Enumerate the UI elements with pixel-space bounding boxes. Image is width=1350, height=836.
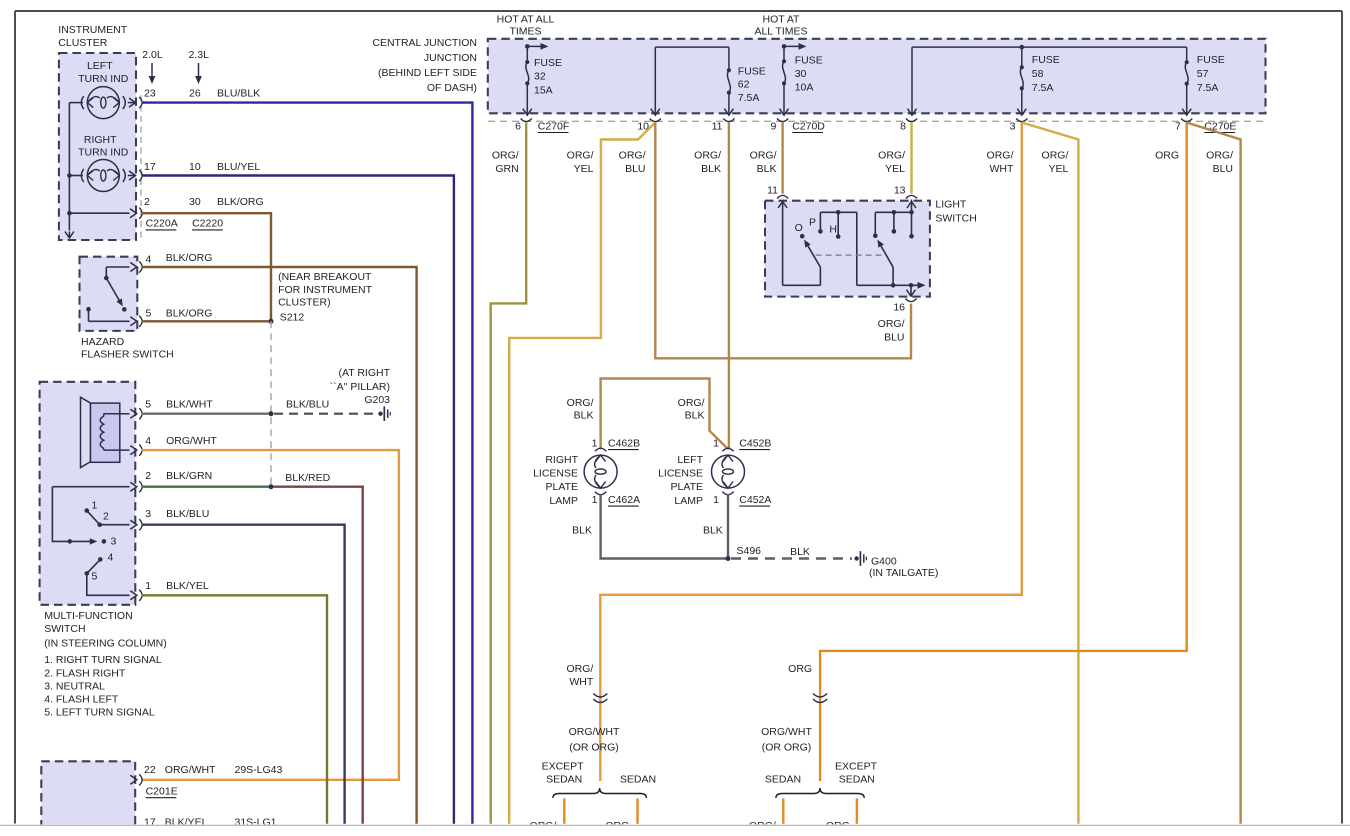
svg-text:ORG/: ORG/ bbox=[878, 318, 905, 330]
svg-text:TIMES: TIMES bbox=[509, 26, 541, 38]
light switch internal: pin11 riser and first pole bbox=[782, 201, 784, 286]
svg-text:BLK: BLK bbox=[701, 163, 721, 175]
light switch box bbox=[765, 201, 930, 297]
wire ORG/WHT from pin 4 down to connector C201E pin 22 bbox=[142, 450, 399, 780]
svg-text:BLU: BLU bbox=[625, 163, 645, 175]
svg-text:ORG/: ORG/ bbox=[1206, 150, 1233, 162]
connector pin 3 bbox=[1016, 119, 1027, 122]
svg-text:C452A: C452A bbox=[739, 494, 771, 506]
svg-text:C220A: C220A bbox=[146, 218, 178, 230]
svg-text:CLUSTER: CLUSTER bbox=[58, 37, 107, 49]
svg-text:FOR INSTRUMENT: FOR INSTRUMENT bbox=[278, 284, 372, 296]
svg-text:BLK: BLK bbox=[572, 524, 592, 536]
svg-text:BLK: BLK bbox=[790, 546, 810, 558]
svg-text:LICENSE: LICENSE bbox=[533, 467, 578, 479]
svg-text:``A" PILLAR): ``A" PILLAR) bbox=[330, 381, 390, 393]
svg-text:C270F: C270F bbox=[538, 120, 570, 132]
connector face line C270 bbox=[488, 120, 1266, 122]
wire ORG/WHT from pin 3 bbox=[600, 123, 1022, 782]
cluster pin 23 exit bbox=[128, 102, 135, 104]
wire BLK/BLU dashed to ground G203 bbox=[274, 413, 376, 415]
svg-text:1: 1 bbox=[713, 494, 719, 506]
svg-text:ORG/: ORG/ bbox=[619, 150, 646, 162]
svg-text:RIGHT: RIGHT bbox=[84, 134, 117, 146]
svg-text:29S-LG43: 29S-LG43 bbox=[235, 764, 283, 776]
svg-text:57: 57 bbox=[1197, 68, 1209, 80]
svg-text:LEFT: LEFT bbox=[677, 454, 703, 466]
svg-text:17: 17 bbox=[144, 161, 156, 173]
svg-text:7.5A: 7.5A bbox=[1032, 82, 1054, 94]
light switch arm 2 bbox=[892, 267, 894, 285]
svg-text:(OR ORG): (OR ORG) bbox=[569, 741, 619, 753]
fuse 62 7.5A with feed jumper to pin 10 bbox=[655, 46, 729, 48]
svg-text:ORG/: ORG/ bbox=[1042, 150, 1069, 162]
svg-text:S496: S496 bbox=[737, 545, 762, 557]
svg-text:5: 5 bbox=[146, 308, 152, 320]
multi-function contacts 1-2 bbox=[85, 508, 90, 513]
svg-text:P: P bbox=[809, 217, 816, 229]
svg-text:SWITCH: SWITCH bbox=[44, 623, 85, 635]
svg-text:2.3L: 2.3L bbox=[188, 49, 209, 61]
svg-text:C452B: C452B bbox=[739, 437, 771, 449]
svg-text:C201E: C201E bbox=[146, 786, 178, 798]
flasher sounder symbol bbox=[81, 397, 91, 468]
dashed splice riser below S212 bbox=[270, 321, 272, 487]
svg-text:BLU: BLU bbox=[884, 332, 904, 344]
svg-text:13: 13 bbox=[894, 184, 906, 196]
svg-text:2: 2 bbox=[103, 511, 109, 523]
svg-text:(IN TAILGATE): (IN TAILGATE) bbox=[869, 567, 938, 579]
svg-text:15A: 15A bbox=[534, 84, 553, 96]
wire BLK/RED bbox=[274, 487, 363, 824]
inline connector on ORG wire bbox=[813, 694, 827, 698]
svg-text:3: 3 bbox=[1010, 120, 1016, 132]
connector pin 8 bbox=[906, 119, 917, 122]
svg-text:5. LEFT TURN SIGNAL: 5. LEFT TURN SIGNAL bbox=[44, 706, 155, 718]
svg-text:HOT AT: HOT AT bbox=[763, 14, 801, 26]
svg-text:INSTRUMENT: INSTRUMENT bbox=[58, 24, 127, 36]
cluster pin 2 exit bbox=[69, 212, 129, 214]
svg-text:FUSE: FUSE bbox=[738, 65, 766, 77]
svg-text:YEL: YEL bbox=[885, 163, 905, 175]
wire BLK/WHT from pin 5 bbox=[142, 413, 269, 415]
wire BLK/BLU from pin 3 bbox=[142, 525, 345, 824]
svg-text:CENTRAL JUNCTION: CENTRAL JUNCTION bbox=[372, 37, 477, 49]
svg-text:ORG/: ORG/ bbox=[567, 397, 594, 409]
svg-text:ORG/WHT: ORG/WHT bbox=[761, 726, 812, 738]
svg-text:BLK/ORG: BLK/ORG bbox=[166, 308, 213, 320]
multi-function switch box bbox=[40, 382, 136, 605]
svg-text:2: 2 bbox=[144, 196, 150, 208]
svg-text:(IN STEERING COLUMN): (IN STEERING COLUMN) bbox=[44, 638, 167, 650]
svg-text:FUSE: FUSE bbox=[534, 57, 562, 69]
svg-text:3: 3 bbox=[145, 508, 151, 520]
svg-text:BLK: BLK bbox=[703, 524, 723, 536]
svg-text:WHT: WHT bbox=[569, 676, 593, 688]
svg-text:YEL: YEL bbox=[574, 163, 594, 175]
connector pin 11 bbox=[723, 119, 734, 122]
svg-text:FUSE: FUSE bbox=[795, 55, 823, 67]
wire stub ORG (sedan left) bbox=[636, 798, 638, 823]
wire BLK from right license lamp bbox=[601, 494, 727, 558]
svg-text:30: 30 bbox=[795, 68, 807, 80]
svg-text:TURN IND: TURN IND bbox=[78, 73, 129, 85]
light switch right contacts bbox=[875, 211, 911, 213]
svg-text:G203: G203 bbox=[364, 394, 390, 406]
svg-text:SEDAN: SEDAN bbox=[546, 774, 582, 786]
svg-text:ORG/: ORG/ bbox=[878, 150, 905, 162]
wire BLK/GRN from pin 2 bbox=[142, 486, 269, 488]
svg-text:23: 23 bbox=[144, 88, 156, 100]
light switch pin 13 bbox=[906, 195, 917, 198]
svg-text:4: 4 bbox=[146, 254, 152, 266]
light switch second pole bottom rail bbox=[857, 284, 920, 286]
svg-text:6: 6 bbox=[515, 120, 521, 132]
light switch pin 11 bbox=[777, 195, 788, 198]
svg-text:CLUSTER): CLUSTER) bbox=[278, 297, 331, 309]
splice junction BLK/WHT to BLK/BLU bbox=[269, 411, 274, 416]
fuse 58 7.5A bbox=[1020, 45, 1025, 50]
svg-text:C270D: C270D bbox=[792, 120, 825, 132]
splice S212 bbox=[269, 319, 274, 324]
wire BLU/YEL bbox=[142, 176, 454, 824]
multi-function contacts 4-5 bbox=[98, 557, 103, 562]
splice junction BLK/GRN to BLK/RED bbox=[269, 484, 274, 489]
multi-function pin 5 exit bbox=[130, 409, 137, 418]
svg-text:ORG/WHT: ORG/WHT bbox=[569, 726, 620, 738]
C201E pin 22 exit bbox=[130, 775, 137, 784]
svg-text:BLK/WHT: BLK/WHT bbox=[166, 398, 213, 410]
svg-text:FLASHER SWITCH: FLASHER SWITCH bbox=[81, 349, 174, 361]
svg-text:BLK: BLK bbox=[685, 409, 705, 421]
fuse 32 15A bbox=[525, 44, 530, 49]
svg-text:PLATE: PLATE bbox=[546, 481, 578, 493]
wire BLK from left license lamp to splice S496 bbox=[727, 494, 729, 558]
svg-text:BLK/ORG: BLK/ORG bbox=[166, 252, 213, 264]
svg-text:O: O bbox=[795, 222, 803, 234]
svg-text:BLK/ORG: BLK/ORG bbox=[217, 196, 264, 208]
svg-text:LAMP: LAMP bbox=[674, 495, 703, 507]
svg-text:BLK/BLU: BLK/BLU bbox=[166, 508, 209, 520]
svg-text:BLU/YEL: BLU/YEL bbox=[217, 161, 260, 173]
svg-text:FUSE: FUSE bbox=[1032, 54, 1060, 66]
svg-text:3: 3 bbox=[111, 535, 117, 547]
wire BLK/YEL from pin 1 bbox=[142, 595, 328, 824]
svg-text:(BEHIND LEFT SIDE: (BEHIND LEFT SIDE bbox=[378, 67, 477, 79]
wire stub ORG (except sedan right) bbox=[856, 798, 858, 823]
svg-text:SEDAN: SEDAN bbox=[620, 774, 656, 786]
svg-text:PLATE: PLATE bbox=[671, 481, 703, 493]
svg-text:C2220: C2220 bbox=[192, 218, 223, 230]
svg-text:10: 10 bbox=[189, 161, 201, 173]
wire BLK/ORG from hazard pin 5 to splice S212 bbox=[142, 320, 272, 322]
svg-text:BLK/BLU: BLK/BLU bbox=[286, 399, 329, 411]
svg-text:ORG/: ORG/ bbox=[750, 150, 777, 162]
svg-text:4. FLASH LEFT: 4. FLASH LEFT bbox=[44, 694, 119, 706]
svg-text:G400: G400 bbox=[871, 556, 897, 568]
svg-text:JUNCTION: JUNCTION bbox=[424, 52, 477, 64]
svg-text:MULTI-FUNCTION: MULTI-FUNCTION bbox=[44, 610, 132, 622]
svg-text:1: 1 bbox=[145, 580, 151, 592]
hazard switch arm bbox=[105, 267, 107, 278]
svg-text:32: 32 bbox=[534, 71, 546, 83]
svg-text:10A: 10A bbox=[795, 81, 814, 93]
svg-text:RIGHT: RIGHT bbox=[545, 454, 578, 466]
svg-text:2. FLASH RIGHT: 2. FLASH RIGHT bbox=[44, 668, 126, 680]
wire ORG/YEL from pin 10 bbox=[509, 123, 655, 824]
svg-text:(OR ORG): (OR ORG) bbox=[762, 741, 812, 753]
svg-text:BLK/YEL: BLK/YEL bbox=[166, 580, 209, 592]
connector face line (cluster) bbox=[140, 95, 142, 240]
svg-text:2.0L: 2.0L bbox=[142, 49, 163, 61]
fuse 57 7.5A bbox=[1186, 47, 1188, 62]
page bottom cut line bbox=[0, 824, 1350, 836]
svg-text:LIGHT: LIGHT bbox=[935, 199, 967, 211]
svg-text:9: 9 bbox=[770, 120, 776, 132]
svg-text:TURN IND: TURN IND bbox=[78, 147, 129, 159]
light switch coupling dashed link bbox=[816, 254, 883, 256]
svg-text:LEFT: LEFT bbox=[87, 60, 113, 72]
wire ORG/BLU from pin 7 (branch) bbox=[1187, 123, 1241, 824]
svg-text:62: 62 bbox=[738, 78, 750, 90]
svg-text:7.5A: 7.5A bbox=[738, 92, 760, 104]
instrument cluster box bbox=[59, 53, 136, 240]
svg-text:26: 26 bbox=[189, 88, 201, 100]
light switch pin 16 bbox=[905, 299, 916, 302]
svg-text:FUSE: FUSE bbox=[1197, 54, 1225, 66]
svg-text:4: 4 bbox=[108, 552, 114, 564]
svg-text:ORG/: ORG/ bbox=[678, 397, 705, 409]
svg-text:1: 1 bbox=[592, 437, 598, 449]
svg-text:LAMP: LAMP bbox=[549, 495, 578, 507]
svg-text:16: 16 bbox=[893, 302, 905, 314]
connector C201E box bbox=[41, 761, 135, 836]
svg-text:11: 11 bbox=[712, 120, 723, 132]
svg-text:30: 30 bbox=[189, 196, 201, 208]
hazard pin 4 exit bbox=[106, 266, 129, 268]
svg-text:HOT AT ALL: HOT AT ALL bbox=[497, 14, 555, 26]
svg-text:7.5A: 7.5A bbox=[1197, 82, 1219, 94]
svg-text:BLK/RED: BLK/RED bbox=[285, 472, 330, 484]
svg-text:GRN: GRN bbox=[495, 163, 518, 175]
svg-text:SEDAN: SEDAN bbox=[765, 774, 801, 786]
connector C270F pin 6 bbox=[521, 119, 532, 122]
connector C270D pin 9 bbox=[777, 119, 788, 122]
svg-text:ORG/WHT: ORG/WHT bbox=[165, 764, 216, 776]
wire ORG/BLK from pin 11 to left license plate lamp C452B bbox=[728, 123, 730, 450]
svg-text:BLK: BLK bbox=[574, 409, 594, 421]
svg-text:ORG/WHT: ORG/WHT bbox=[166, 435, 217, 447]
wire BLK/ORG from pin 2 to splice S212 bbox=[142, 213, 272, 321]
wire BLU/BLK bbox=[142, 103, 473, 824]
svg-text:4: 4 bbox=[145, 435, 151, 447]
svg-text:EXCEPT: EXCEPT bbox=[835, 760, 878, 772]
svg-text:EXCEPT: EXCEPT bbox=[542, 760, 585, 772]
svg-text:C462A: C462A bbox=[608, 494, 640, 506]
svg-text:WHT: WHT bbox=[989, 163, 1013, 175]
wire ORG from pin 7 bbox=[820, 123, 1187, 782]
svg-text:ORG/: ORG/ bbox=[987, 150, 1014, 162]
svg-text:SWITCH: SWITCH bbox=[935, 213, 976, 225]
svg-text:LICENSE: LICENSE bbox=[658, 467, 703, 479]
svg-text:5: 5 bbox=[145, 398, 151, 410]
svg-text:C462B: C462B bbox=[608, 437, 640, 449]
svg-text:1. RIGHT TURN SIGNAL: 1. RIGHT TURN SIGNAL bbox=[44, 654, 162, 666]
connector C270E pin 7 bbox=[1181, 119, 1192, 122]
multi-function pin 2 exit and common bbox=[52, 486, 129, 488]
hazard flasher switch box bbox=[80, 257, 138, 331]
wire stub ORG (except sedan left) bbox=[563, 798, 565, 823]
svg-text:HAZARD: HAZARD bbox=[81, 336, 125, 348]
svg-text:ORG/: ORG/ bbox=[492, 150, 519, 162]
wire BLK/ORG from hazard pin 4 bbox=[142, 267, 417, 824]
svg-text:2: 2 bbox=[145, 470, 151, 482]
svg-text:ORG/: ORG/ bbox=[694, 150, 721, 162]
svg-text:H: H bbox=[829, 224, 837, 236]
wire ORG/YEL from pin 3 (branch) bbox=[1022, 123, 1079, 824]
svg-text:YEL: YEL bbox=[1049, 163, 1069, 175]
light switch arm 1 (O contact) bbox=[807, 244, 821, 268]
svg-text:22: 22 bbox=[144, 764, 156, 776]
page frame border bbox=[15, 10, 1342, 12]
cluster internal bus bbox=[68, 103, 70, 231]
splice S496 bbox=[726, 556, 731, 561]
fuse 30 10A bbox=[782, 44, 787, 49]
cluster pin 17 exit bbox=[128, 175, 135, 177]
svg-text:ORG/: ORG/ bbox=[567, 150, 594, 162]
ground G400 (IN TAILGATE) bbox=[854, 556, 858, 560]
central junction box (fuse box) bbox=[488, 39, 1266, 114]
left license plate lamp C452B/C452A bbox=[722, 448, 733, 451]
wire stub ORG (sedan right) bbox=[782, 798, 784, 823]
right license plate lamp C462B/C462A bbox=[595, 448, 606, 451]
bus jumper to pin 8 and fuses 58/57 bbox=[912, 46, 1187, 48]
svg-text:S212: S212 bbox=[280, 312, 305, 324]
inline connector on ORG/WHT wire bbox=[593, 694, 607, 698]
svg-text:11: 11 bbox=[767, 184, 778, 196]
ground G203 (AT RIGHT A PILLAR) bbox=[378, 412, 382, 416]
multi-function pin 4 exit bbox=[130, 446, 137, 455]
svg-text:1: 1 bbox=[92, 500, 98, 512]
svg-text:(NEAR BREAKOUT: (NEAR BREAKOUT bbox=[278, 271, 372, 283]
wire BLK dashed to ground G400 bbox=[731, 557, 852, 559]
svg-text:SEDAN: SEDAN bbox=[839, 774, 875, 786]
svg-text:ORG/: ORG/ bbox=[566, 663, 593, 675]
wire ORG/BLK loop linking both license lamps bbox=[601, 379, 728, 450]
wire ORG/GRN from pin 6 bbox=[491, 123, 527, 824]
svg-text:1: 1 bbox=[713, 437, 719, 449]
svg-text:ALL TIMES: ALL TIMES bbox=[754, 26, 807, 38]
wire ORG/BLU from pin 10 to light switch pin 16 bbox=[655, 123, 911, 359]
svg-text:BLK: BLK bbox=[757, 163, 777, 175]
svg-text:ORG: ORG bbox=[1155, 150, 1179, 162]
connector pin 10 bbox=[650, 119, 661, 122]
hazard pin 5 contact bbox=[86, 307, 91, 312]
wire ORG/BLK from pin 9 to light switch pin 11 bbox=[781, 123, 783, 194]
svg-text:(AT RIGHT: (AT RIGHT bbox=[338, 367, 390, 379]
svg-text:8: 8 bbox=[900, 120, 906, 132]
svg-text:OF DASH): OF DASH) bbox=[427, 82, 477, 94]
svg-text:5: 5 bbox=[92, 570, 98, 582]
svg-text:58: 58 bbox=[1032, 68, 1044, 80]
wire ORG/YEL from pin 8 to light switch pin 13 bbox=[910, 123, 912, 194]
light switch contacts P and H bbox=[818, 229, 823, 234]
svg-text:BLU: BLU bbox=[1213, 163, 1233, 175]
svg-text:1: 1 bbox=[592, 494, 598, 506]
svg-text:BLU/BLK: BLU/BLK bbox=[217, 88, 260, 100]
svg-text:ORG: ORG bbox=[788, 663, 812, 675]
svg-text:7: 7 bbox=[1175, 120, 1181, 132]
svg-text:3. NEUTRAL: 3. NEUTRAL bbox=[44, 680, 105, 692]
svg-text:BLK/GRN: BLK/GRN bbox=[166, 470, 212, 482]
